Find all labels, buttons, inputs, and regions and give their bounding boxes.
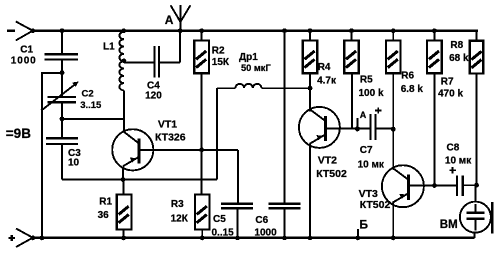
capacitor C3 10 bbox=[46, 119, 81, 180]
svg-text:КТ502: КТ502 bbox=[316, 168, 347, 180]
wire tank node to L1 bottom / VT1 collector bbox=[62, 118, 124, 120]
svg-text:4.7к: 4.7к bbox=[317, 75, 337, 86]
svg-text:А: А bbox=[360, 110, 367, 120]
svg-text:R3: R3 bbox=[171, 199, 184, 210]
svg-text:R1: R1 bbox=[99, 197, 112, 208]
svg-text:0..15: 0..15 bbox=[212, 228, 235, 239]
svg-text:12К: 12К bbox=[171, 213, 189, 224]
svg-text:ВМ: ВМ bbox=[440, 219, 458, 231]
capacitor C1 1000 bbox=[11, 28, 78, 72]
svg-text:С1: С1 bbox=[20, 45, 33, 56]
svg-text:С6: С6 bbox=[255, 215, 268, 226]
svg-text:3..15: 3..15 bbox=[80, 100, 102, 111]
svg-text:А: А bbox=[165, 13, 174, 27]
svg-text:6.8 k: 6.8 k bbox=[401, 84, 424, 95]
resistor R8 68 k bbox=[449, 31, 483, 186]
svg-text:10 мк: 10 мк bbox=[445, 156, 472, 167]
svg-text:R2: R2 bbox=[212, 45, 225, 56]
node junction C1/C2/left-rail bbox=[60, 70, 65, 75]
node junction C2/C3/tank wire bbox=[60, 116, 65, 121]
svg-text:120: 120 bbox=[145, 91, 162, 102]
svg-text:L1: L1 bbox=[103, 42, 115, 53]
resistor R6 6.8 k bbox=[386, 28, 423, 170]
svg-text:С8: С8 bbox=[447, 143, 460, 154]
svg-text:С5: С5 bbox=[213, 214, 226, 225]
top supply rail wire bbox=[33, 30, 478, 32]
earphone BM bbox=[440, 185, 493, 238]
transistor VT2 КТ502 bbox=[299, 107, 347, 240]
resistor R2 15К bbox=[194, 28, 230, 194]
svg-text:68 k: 68 k bbox=[449, 53, 469, 64]
svg-text:10 мк: 10 мк bbox=[358, 159, 385, 170]
node junction C7/R6/VT3 collector bbox=[391, 127, 396, 132]
svg-text:1000: 1000 bbox=[254, 228, 277, 239]
node junction C8/R8/BM bbox=[474, 183, 479, 188]
trimmer capacitor C2 3..15 bbox=[41, 73, 102, 119]
svg-text:470 k: 470 k bbox=[438, 89, 463, 100]
choke-left vertical wire (emitter node up to Др1) bbox=[216, 88, 218, 179]
svg-text:50 мкГ: 50 мкГ bbox=[241, 63, 271, 73]
svg-text:R6: R6 bbox=[401, 71, 414, 82]
node junction VT1 emitter bbox=[121, 177, 126, 182]
resistor R3 12К bbox=[171, 195, 210, 241]
svg-text:100 k: 100 k bbox=[359, 88, 384, 99]
resistor R4 4.7к bbox=[303, 28, 337, 111]
svg-text:КТ326: КТ326 bbox=[155, 132, 186, 144]
svg-text:С7: С7 bbox=[360, 145, 373, 156]
antenna А bbox=[165, 5, 191, 33]
resistor R5 100 k bbox=[344, 28, 384, 128]
VT3 base wire to R7 and C8 bbox=[409, 185, 456, 187]
transistor VT1 КТ326 bbox=[112, 119, 186, 180]
choke Др1 50 мкГ bbox=[217, 52, 312, 91]
left rail wire from C1 junction down to bottom rail bbox=[40, 72, 63, 240]
svg-text:R5: R5 bbox=[360, 75, 373, 86]
svg-text:VT2: VT2 bbox=[318, 155, 337, 167]
svg-text:10: 10 bbox=[68, 158, 80, 169]
svg-text:R8: R8 bbox=[450, 40, 463, 51]
svg-text:36: 36 bbox=[98, 210, 110, 221]
inductor L1 bbox=[103, 28, 126, 90]
svg-text:R4: R4 bbox=[318, 62, 331, 73]
resistor R7 470 k bbox=[427, 28, 463, 188]
test point Б stub bbox=[355, 217, 368, 240]
transistor VT3 КТ502 bbox=[359, 165, 424, 240]
svg-text:С2: С2 bbox=[82, 88, 94, 99]
svg-text:Др1: Др1 bbox=[239, 52, 258, 63]
svg-text:1000: 1000 bbox=[11, 56, 37, 67]
wire L1 bottom to VT1 collector bbox=[123, 90, 125, 132]
svg-text:Б: Б bbox=[359, 217, 368, 231]
plus terminal arrow (bottom-left input) bbox=[9, 229, 36, 248]
electrolytic capacitor C8 10 мк bbox=[445, 143, 477, 196]
svg-text:КТ502: КТ502 bbox=[360, 199, 391, 211]
resistor R1 36 bbox=[98, 180, 132, 241]
svg-text:R7: R7 bbox=[441, 76, 454, 87]
capacitor C6 1000 bbox=[254, 28, 300, 240]
svg-text:=9В: =9В bbox=[6, 126, 31, 141]
electrolytic capacitor C7 10 мк bbox=[358, 107, 394, 170]
emitter node wire (C3 corner to choke-left vertical) bbox=[62, 179, 217, 181]
capacitor C4 120 bbox=[124, 31, 180, 102]
capacitor C5 0..15 bbox=[212, 203, 254, 241]
test point А stub bbox=[355, 110, 367, 131]
VT2 base wire to R5 / point А / C7 bbox=[326, 128, 370, 130]
svg-text:VT1: VT1 bbox=[158, 119, 177, 131]
minus terminal arrow (top-left input) bbox=[7, 22, 35, 41]
svg-text:15К: 15К bbox=[212, 57, 230, 68]
bottom supply rail wire bbox=[33, 237, 475, 240]
VT1 base wire to R2/R3 divider and C5 bbox=[139, 147, 238, 202]
